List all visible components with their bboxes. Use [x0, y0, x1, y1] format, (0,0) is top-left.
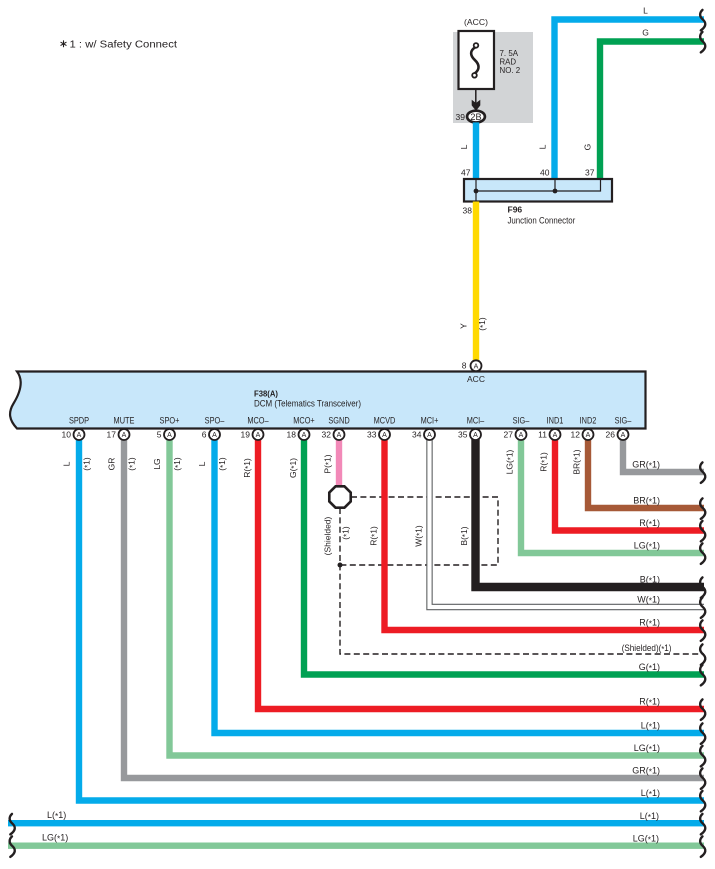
shield drain wire (dashed) to right edge — [340, 508, 704, 654]
svg-text:R(*1): R(*1) — [539, 452, 550, 472]
svg-text:A: A — [474, 363, 479, 370]
break symbols + labels L(*1) — [10, 810, 706, 834]
break symbol shield drain — [700, 644, 705, 665]
svg-text:R(*1): R(*1) — [639, 697, 660, 708]
svg-text:G: G — [583, 144, 593, 151]
svg-text:34: 34 — [412, 430, 422, 440]
wire L from battery (top right) to F96 pin 40 — [555, 20, 705, 180]
junction connector F96 — [464, 179, 612, 202]
wire W from pin 34 MCI+ — [430, 434, 705, 607]
svg-text:35: 35 — [458, 430, 468, 440]
break symbol R(*1) — [700, 521, 705, 542]
svg-text:L(*1): L(*1) — [641, 788, 660, 799]
svg-text:R(*1): R(*1) — [242, 458, 253, 478]
svg-text:(Shielded)(*1): (Shielded)(*1) — [622, 643, 672, 654]
svg-text:BR(*1): BR(*1) — [572, 449, 583, 474]
pin numbers 47 40 37 — [461, 168, 595, 178]
wire L from pin 6 SPO– — [215, 434, 705, 733]
svg-text:12: 12 — [571, 430, 581, 440]
break symbol B(*1) — [700, 577, 705, 598]
svg-text:(*1): (*1) — [82, 457, 93, 471]
svg-text:A: A — [427, 432, 432, 439]
svg-text:MCVD: MCVD — [374, 416, 396, 426]
svg-text:LG(*1): LG(*1) — [634, 541, 660, 552]
wire LG from pin 5 SPO+ — [170, 434, 705, 756]
svg-text:39: 39 — [456, 112, 466, 122]
DCM F38(A) connector box — [10, 372, 645, 429]
svg-text:18: 18 — [287, 430, 297, 440]
svg-text:R(*1): R(*1) — [639, 518, 660, 529]
break symbol L(*1) — [700, 723, 705, 744]
svg-text:19: 19 — [241, 430, 251, 440]
wire G (top right) to F96 pin 37 — [600, 42, 704, 180]
break symbol GR(*1) — [700, 768, 705, 789]
svg-text:37: 37 — [585, 168, 595, 178]
svg-text:A: A — [621, 432, 626, 439]
break symbol BR(*1) — [700, 498, 705, 519]
svg-text:SPO+: SPO+ — [160, 416, 180, 426]
break symbol G(*1) — [700, 665, 705, 686]
svg-text:A: A — [473, 432, 478, 439]
svg-text:G: G — [642, 28, 649, 38]
break symbol R(*1) — [700, 620, 705, 641]
break symbol R(*1) — [700, 699, 705, 720]
svg-text:B(*1): B(*1) — [640, 575, 660, 586]
svg-text:A: A — [122, 432, 127, 439]
svg-text:Junction Connector: Junction Connector — [508, 216, 576, 226]
svg-text:SPO–: SPO– — [205, 416, 225, 426]
wire B from pin 35 MCI– — [476, 434, 705, 587]
svg-text:LG(*1): LG(*1) — [42, 833, 68, 844]
svg-text:(ACC): (ACC) — [464, 17, 488, 27]
svg-text:L: L — [538, 144, 548, 149]
svg-text:LG(*1): LG(*1) — [634, 743, 660, 754]
svg-text:5: 5 — [157, 430, 162, 440]
svg-text:8: 8 — [462, 361, 467, 371]
wire R from pin 11 IND1 — [555, 434, 704, 531]
svg-text:LG(*1): LG(*1) — [505, 449, 516, 474]
svg-text:(*1): (*1) — [341, 526, 352, 540]
break symbol LG(*1) — [700, 746, 705, 767]
wire P from pin 32 SGND — [336, 434, 342, 487]
svg-text:47: 47 — [461, 168, 471, 178]
svg-text:MCO+: MCO+ — [293, 416, 315, 426]
svg-text:26: 26 — [606, 430, 616, 440]
svg-text:6: 6 — [202, 430, 207, 440]
wire R from pin 33 MCVD — [385, 434, 705, 630]
pin 8 circle A — [462, 360, 482, 371]
break symbol W(*1) — [700, 597, 705, 618]
svg-text:F96: F96 — [508, 205, 523, 215]
svg-text:(*1): (*1) — [127, 457, 138, 471]
svg-text:MCI–: MCI– — [467, 416, 485, 426]
wire GR from pin 17 MUTE — [124, 434, 704, 778]
svg-text:NO. 2: NO. 2 — [500, 65, 521, 75]
break symbol GR(*1) — [700, 462, 705, 483]
svg-text:LG(*1): LG(*1) — [633, 834, 659, 845]
svg-text:GR(*1): GR(*1) — [632, 766, 660, 777]
shield octagon (SGND) — [329, 486, 350, 507]
svg-text:A: A — [519, 432, 524, 439]
svg-text:W(*1): W(*1) — [637, 595, 660, 606]
wire Y from F96 pin 38 to F38(A) pin 8 — [473, 202, 479, 365]
svg-text:P(*1): P(*1) — [323, 454, 334, 473]
svg-text:A: A — [337, 432, 342, 439]
wire BR from pin 12 IND2 — [588, 434, 704, 508]
wire R from pin 19 MCO– — [258, 434, 704, 709]
svg-text:SIG–: SIG– — [615, 416, 632, 426]
F96 internal bus — [474, 179, 601, 202]
junction dot shield — [338, 563, 343, 568]
svg-text:L(*1): L(*1) — [640, 811, 659, 822]
svg-text:A: A — [302, 432, 307, 439]
F38(A) pin name labels — [69, 416, 631, 426]
svg-text:G(*1): G(*1) — [639, 662, 660, 673]
svg-text:L(*1): L(*1) — [641, 721, 660, 732]
wire G from pin 18 MCO+ — [304, 434, 704, 675]
svg-text:G(*1): G(*1) — [288, 458, 299, 478]
note *1 : w/ Safety Connect — [61, 39, 177, 50]
svg-text:IND1: IND1 — [547, 416, 564, 426]
svg-text:Y: Y — [459, 323, 469, 329]
svg-text:L: L — [643, 6, 648, 16]
break symbol — [700, 32, 705, 53]
svg-text:BR(*1): BR(*1) — [633, 496, 660, 507]
svg-text:27: 27 — [504, 430, 514, 440]
svg-text:IND2: IND2 — [580, 416, 597, 426]
svg-text:2B: 2B — [470, 112, 481, 123]
svg-text:(Shielded): (Shielded) — [323, 516, 333, 555]
svg-text:GR(*1): GR(*1) — [632, 460, 660, 471]
svg-text:SIG–: SIG– — [513, 416, 530, 426]
svg-text:(*1): (*1) — [217, 457, 228, 471]
wire LG from pin 27 SIG– — [521, 434, 704, 553]
svg-text:GR: GR — [107, 458, 117, 471]
svg-text:17: 17 — [107, 430, 117, 440]
svg-text:F38(A): F38(A) — [254, 389, 278, 399]
svg-text:MUTE: MUTE — [114, 416, 135, 426]
svg-text:A: A — [553, 432, 558, 439]
svg-text:SPDP: SPDP — [69, 416, 89, 426]
svg-text:A: A — [77, 432, 82, 439]
wire L full width bottom — [8, 820, 704, 826]
arrow from fuse to connector 2B — [472, 89, 481, 111]
svg-text:38: 38 — [463, 206, 473, 216]
svg-text:ACC: ACC — [467, 374, 485, 384]
svg-text:A: A — [382, 432, 387, 439]
svg-text:MCI+: MCI+ — [421, 416, 439, 426]
svg-text:A: A — [256, 432, 261, 439]
svg-text:L(*1): L(*1) — [47, 810, 66, 821]
fuse F RAD NO.2 7.5A — [459, 31, 495, 89]
pin circles and numbers — [62, 429, 629, 440]
shield boundary (dashed) around MCI+/MCI- — [340, 497, 498, 565]
svg-text:SGND: SGND — [328, 416, 350, 426]
svg-text:11: 11 — [538, 430, 547, 440]
svg-text:R(*1): R(*1) — [639, 618, 660, 629]
svg-text:MCO–: MCO– — [247, 416, 268, 426]
svg-text:A: A — [212, 432, 217, 439]
wire L fuse to F96 pin 47 — [473, 122, 479, 179]
svg-text:40: 40 — [540, 168, 550, 178]
svg-text:L: L — [197, 461, 207, 466]
svg-text:L: L — [459, 144, 469, 149]
fuse holder gray background — [453, 32, 533, 123]
svg-text:32: 32 — [322, 430, 332, 440]
svg-text:(*1): (*1) — [172, 457, 183, 471]
svg-text:L: L — [62, 461, 72, 466]
svg-text:1 : w/ Safety Connect: 1 : w/ Safety Connect — [70, 39, 178, 50]
break symbol LG(*1) — [700, 543, 705, 564]
svg-text:33: 33 — [367, 430, 377, 440]
F96 label — [508, 205, 576, 226]
wire LG full width bottom — [8, 843, 704, 849]
fuse value label 7.5A RAD NO.2 — [500, 48, 521, 75]
svg-text:LG: LG — [152, 458, 162, 469]
svg-text:A: A — [167, 432, 172, 439]
wire L from pin 10 SPDP — [79, 434, 704, 801]
wire GR from pin 26 SIG– — [623, 434, 704, 472]
F38(A) label — [254, 389, 361, 409]
connector 2B pin 39 — [467, 111, 485, 123]
svg-text:B(*1): B(*1) — [459, 526, 470, 545]
svg-text:DCM (Telematics Transceiver): DCM (Telematics Transceiver) — [254, 399, 361, 409]
break symbols + labels LG(*1) — [10, 833, 706, 857]
svg-text:W(*1): W(*1) — [414, 525, 425, 547]
break symbol — [700, 10, 705, 31]
svg-text:(*1): (*1) — [477, 317, 488, 331]
svg-text:10: 10 — [62, 430, 72, 440]
break symbol L(*1) — [700, 791, 705, 812]
svg-text:A: A — [586, 432, 591, 439]
svg-text:R(*1): R(*1) — [369, 526, 380, 546]
